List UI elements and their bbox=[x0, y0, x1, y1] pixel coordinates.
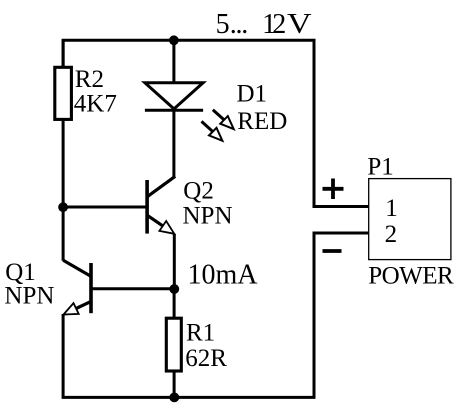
node junction left (Q2 base) bbox=[58, 202, 68, 212]
transistor Q2 bbox=[147, 176, 175, 234]
svg-text:Q2: Q2 bbox=[183, 177, 214, 204]
wire bottom rail to minus pin bbox=[63, 233, 369, 397]
svg-text:V: V bbox=[287, 9, 312, 40]
resistor R1 bbox=[166, 318, 181, 371]
node junction top bbox=[169, 35, 179, 45]
svg-text:P1: P1 bbox=[367, 154, 393, 181]
svg-text:R2: R2 bbox=[75, 66, 104, 93]
wire LED cathode to Q2 collector bbox=[172, 110, 175, 177]
svg-text:NPN: NPN bbox=[183, 203, 233, 230]
svg-text:4K7: 4K7 bbox=[74, 91, 117, 118]
net label 5 ... 12V bbox=[216, 9, 312, 40]
svg-text:5: 5 bbox=[216, 9, 230, 40]
svg-text:62R: 62R bbox=[185, 345, 227, 372]
svg-text:RED: RED bbox=[237, 108, 287, 135]
wire node to R1 bbox=[173, 289, 176, 319]
wire left rail upper (top rail to R2) bbox=[62, 40, 65, 68]
node junction bottom bbox=[169, 393, 179, 403]
LED D1 triangle bbox=[145, 83, 203, 109]
svg-text:NPN: NPN bbox=[4, 283, 54, 310]
svg-text:2: 2 bbox=[385, 221, 398, 248]
wire Q2 base bbox=[63, 206, 147, 209]
wire R1 bottom bbox=[173, 370, 176, 397]
wire LED anode bbox=[172, 40, 175, 84]
wire Q1 base bbox=[91, 287, 174, 290]
svg-text:10mA: 10mA bbox=[188, 260, 259, 291]
wire R2 bottom to node bbox=[62, 119, 65, 261]
resistor R2 bbox=[55, 67, 72, 119]
svg-text:D1: D1 bbox=[237, 81, 268, 108]
svg-text:1: 1 bbox=[385, 195, 398, 222]
transistor Q1 bbox=[63, 260, 91, 314]
LED arrow 1 bbox=[213, 110, 234, 129]
wire Q2 emitter to node bbox=[173, 234, 176, 289]
svg-text:...: ... bbox=[230, 9, 248, 40]
LED arrow 2 bbox=[202, 121, 223, 140]
svg-text:2: 2 bbox=[272, 9, 286, 40]
minus symbol bbox=[323, 249, 342, 253]
plus symbol bbox=[323, 179, 344, 200]
svg-text:POWER: POWER bbox=[368, 263, 454, 290]
svg-text:R1: R1 bbox=[186, 320, 215, 347]
wire top rail VCC to plus pin bbox=[63, 40, 369, 206]
node junction 10mA bbox=[169, 284, 179, 294]
connector P1 box bbox=[369, 179, 451, 260]
LED D1 cathode bar bbox=[145, 109, 203, 112]
